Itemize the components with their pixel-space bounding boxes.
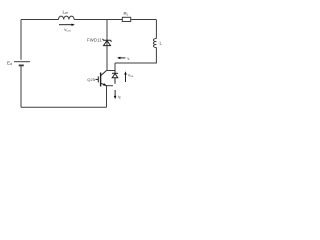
inductor L <box>153 39 156 48</box>
svg-text:iL: iL <box>128 56 131 62</box>
wire bottom horizontal <box>21 106 107 108</box>
arrow V_Lm <box>59 23 75 26</box>
wire top-left horizontal <box>21 19 59 21</box>
wire FWD11 vertical <box>106 20 108 71</box>
svg-text:Q25: Q25 <box>87 77 96 82</box>
wire collector horizontal <box>107 70 116 72</box>
resistor R_L <box>122 17 130 21</box>
svg-text:FWD11: FWD11 <box>87 37 102 42</box>
svg-text:Ed: Ed <box>7 61 12 67</box>
wire left vertical lower <box>20 66 22 107</box>
svg-text:Lm: Lm <box>63 10 69 16</box>
svg-text:L: L <box>160 41 163 46</box>
wire collector-node step <box>114 63 116 71</box>
diode FWD11 (zener) <box>103 39 112 46</box>
svg-text:RL: RL <box>124 11 129 17</box>
svg-text:iE: iE <box>118 94 121 100</box>
wire emitter horizontal <box>107 85 114 87</box>
svg-text:Vce: Vce <box>128 73 134 78</box>
wire left vertical upper <box>20 20 22 60</box>
wire top-right horizontal <box>131 19 157 21</box>
emitter arrowhead <box>103 83 107 86</box>
wire top-mid horizontal <box>74 19 122 21</box>
battery Ed <box>14 62 30 66</box>
arrow i_E <box>114 90 117 99</box>
arrow V_ce <box>124 71 127 82</box>
inductor Lm <box>59 16 75 19</box>
diode freewheel (across IGBT) <box>112 71 118 84</box>
wire right vertical upper <box>155 20 157 39</box>
transistor Q25 (IGBT) <box>96 71 107 87</box>
arrow i_L <box>117 57 125 60</box>
svg-text:VLm: VLm <box>64 28 71 33</box>
wire right vertical lower <box>115 48 156 64</box>
wire emitter vertical <box>106 86 108 108</box>
